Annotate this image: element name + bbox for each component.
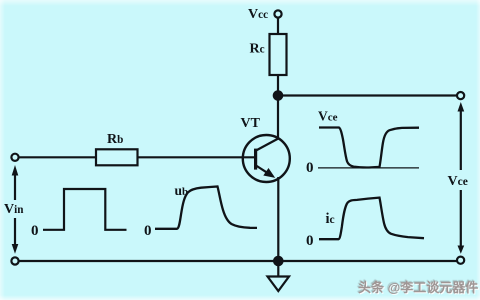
svg-text:ic: ic (326, 211, 335, 227)
node input top terminal (11, 154, 18, 161)
wire bottom rail (19, 260, 458, 262)
waveform ic (319, 198, 424, 240)
svg-text:Vin: Vin (4, 202, 24, 217)
wire input to Rb (19, 156, 96, 158)
svg-text:0: 0 (144, 223, 152, 239)
transistor VT (243, 135, 290, 182)
wire Vcc to Rc (277, 18, 279, 34)
svg-text:0: 0 (31, 223, 39, 239)
svg-text:Rc: Rc (250, 42, 265, 57)
node Vcc terminal (274, 10, 281, 17)
wire Rb to base (138, 156, 255, 158)
svg-text:0: 0 (306, 233, 314, 249)
wire Rc to collector (277, 75, 279, 139)
node input bottom terminal (11, 257, 18, 264)
svg-text:Vcc: Vcc (248, 7, 268, 22)
svg-text:VT: VT (241, 116, 261, 131)
resistor Rc (270, 34, 287, 75)
svg-text:Vce: Vce (318, 109, 338, 124)
svg-text:Vce: Vce (448, 174, 468, 189)
svg-text:Rb: Rb (107, 132, 123, 147)
ground (268, 261, 290, 291)
resistor Rb (96, 149, 138, 165)
Vin measurement arrow (12, 165, 19, 254)
waveform Vin pulse (43, 189, 127, 230)
wire emitter to ground node (277, 177, 279, 261)
node output top terminal (457, 92, 464, 99)
axis zero line (Vce waveform) (318, 167, 419, 169)
node output bottom terminal (457, 257, 464, 264)
waveform Vce (319, 128, 419, 168)
Vce measurement arrow (458, 102, 465, 254)
waveform ub (155, 187, 257, 229)
watermark (358, 280, 478, 295)
node collector junction (274, 91, 282, 99)
node ground junction (274, 257, 282, 265)
svg-text:0: 0 (306, 160, 314, 176)
wire collector node to right terminal (278, 94, 457, 96)
